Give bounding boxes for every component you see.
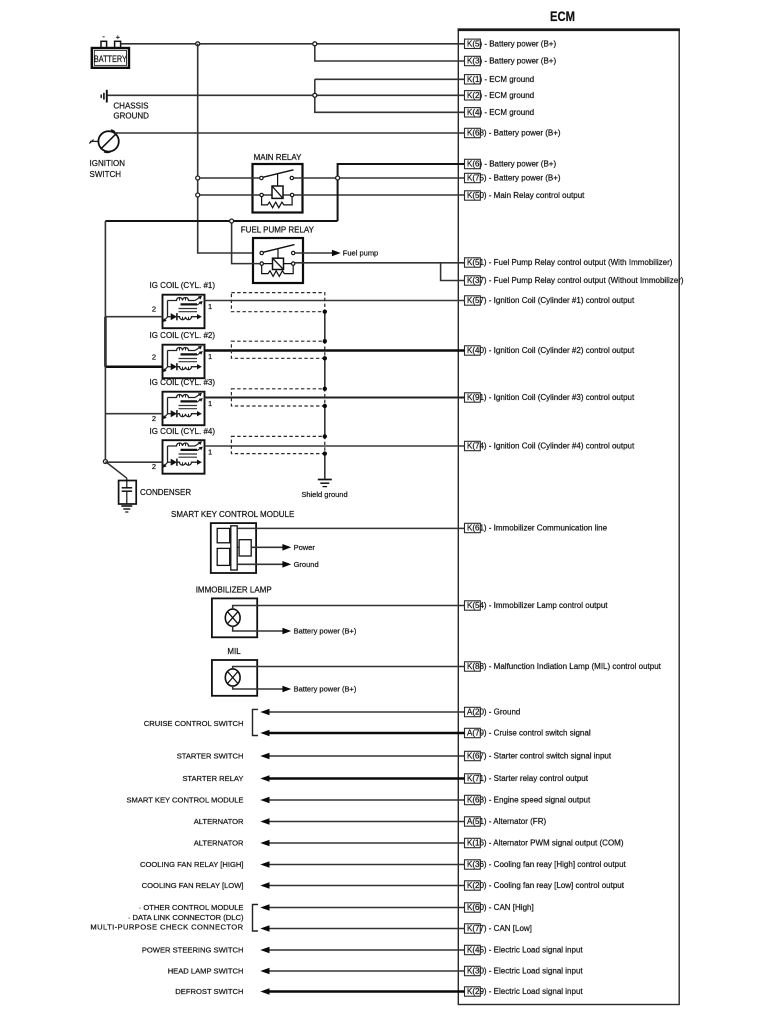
wire coil 1 pin 1 to ECM <box>205 300 465 302</box>
svg-text:1: 1 <box>208 448 212 457</box>
svg-text:Fuel pump: Fuel pump <box>343 249 378 258</box>
pin K(50) <box>465 191 586 200</box>
svg-text:STARTER RELAY: STARTER RELAY <box>182 774 243 783</box>
pin K(1) <box>465 75 535 84</box>
svg-text:A(79) - Cruise control switch: A(79) - Cruise control switch signal <box>467 729 591 738</box>
pin A(79) <box>465 728 591 737</box>
svg-text:2: 2 <box>152 414 156 423</box>
shield box cylinder 2 <box>231 341 324 358</box>
pin K(2) <box>465 91 535 100</box>
svg-text:K(88) - Malfunction Indiation: K(88) - Malfunction Indiation Lamp (MIL)… <box>467 662 662 671</box>
pin K(36) <box>465 860 627 869</box>
svg-text:SMART KEY CONTROL MODULE: SMART KEY CONTROL MODULE <box>126 796 243 805</box>
bracket cruise control switch <box>253 709 259 735</box>
wire fuel pump output arrow <box>295 249 378 258</box>
svg-text:CONDENSER: CONDENSER <box>140 488 191 497</box>
shield box cylinder 1 <box>231 293 324 312</box>
svg-text:K(71) - Starter relay control: K(71) - Starter relay control output <box>467 774 589 783</box>
pin K(88) <box>465 662 662 671</box>
pin K(75) <box>465 173 561 182</box>
wire arrow row y=712.0 <box>260 709 464 716</box>
wire arrow row y=907.5 <box>260 904 464 911</box>
pin K(54) <box>465 601 609 610</box>
svg-text:2: 2 <box>152 462 156 471</box>
pin A(51) <box>465 817 547 826</box>
pin K(5) <box>465 39 557 48</box>
svg-text:IG COIL (CYL. #4): IG COIL (CYL. #4) <box>150 427 216 436</box>
svg-text:K(36) - Cooling fan reay [High: K(36) - Cooling fan reay [High] control … <box>467 860 627 869</box>
wire main relay switch input <box>198 177 260 179</box>
svg-text:K(50) - Main Relay control out: K(50) - Main Relay control output <box>467 191 585 200</box>
junction ground branch <box>313 93 317 97</box>
svg-text:K(54) - Immobilizer Lamp contr: K(54) - Immobilizer Lamp control output <box>467 601 608 610</box>
pin K(51) <box>465 258 673 267</box>
junction relay output branch <box>336 176 340 180</box>
wire arrow row y=733.0 <box>260 730 464 737</box>
wire coil 2 pin 1 to ECM <box>205 349 465 352</box>
svg-text:K(30) - Electric Load signal i: K(30) - Electric Load signal input <box>467 967 583 976</box>
wire K(61) to smart key module <box>237 527 464 529</box>
svg-text:K(6) - Battery power (B+): K(6) - Battery power (B+) <box>467 160 556 169</box>
svg-text:K(63) - Engine speed signal ou: K(63) - Engine speed signal output <box>467 796 591 805</box>
wire arrow row y=928.5 <box>260 925 464 932</box>
wire chassis ground to K(2) <box>108 94 465 96</box>
wire K(54) to immobilizer lamp <box>233 606 465 610</box>
pin K(4) <box>465 108 535 117</box>
pin K(91) <box>465 393 635 402</box>
svg-text:2: 2 <box>152 305 156 314</box>
junction relay input 2 <box>196 193 200 197</box>
pin K(63) <box>465 795 591 804</box>
svg-text:K(77) - CAN [Low]: K(77) - CAN [Low] <box>467 924 532 933</box>
wire K(88) to MIL <box>233 667 465 670</box>
pin K(68) <box>465 128 561 137</box>
svg-text:POWER STEERING SWITCH: POWER STEERING SWITCH <box>142 946 244 955</box>
svg-text:FUEL PUMP RELAY: FUEL PUMP RELAY <box>241 226 315 235</box>
junction K(3) branch <box>313 42 317 46</box>
svg-text:K(1) - ECM ground: K(1) - ECM ground <box>467 75 534 84</box>
svg-text:STARTER SWITCH: STARTER SWITCH <box>177 752 244 761</box>
svg-text:IG COIL (CYL. #2): IG COIL (CYL. #2) <box>150 331 216 340</box>
wire arrow row y=971.0 <box>260 968 464 975</box>
wire switched power rail <box>105 220 337 222</box>
resistor inside fuel pump relay <box>262 265 294 276</box>
pin K(6) <box>465 159 557 168</box>
wire condenser branch <box>105 462 126 479</box>
pin K(67) <box>465 751 612 760</box>
pin A(20) <box>465 707 521 716</box>
svg-text:K(20) - Cooling fan reay [Low]: K(20) - Cooling fan reay [Low] control o… <box>467 881 625 890</box>
wire MIL battery arrow <box>233 685 357 694</box>
svg-text:1: 1 <box>208 302 212 311</box>
wire arrow row y=885.5 <box>260 882 464 889</box>
svg-text:K(16) - Alternator PWM signal: K(16) - Alternator PWM signal output (CO… <box>467 839 624 848</box>
wire coil 4 pin 2 feed <box>105 461 162 463</box>
svg-text:MAIN RELAY: MAIN RELAY <box>254 153 303 162</box>
wire arrow row y=821.5 <box>260 818 464 825</box>
svg-text:SMART KEY CONTROL MODULE: SMART KEY CONTROL MODULE <box>171 510 294 519</box>
junction relay input 1 <box>196 176 200 180</box>
wire ignition coil feed bus <box>104 221 106 462</box>
battery BT1 <box>92 32 129 68</box>
condenser C1 <box>119 478 192 504</box>
junction shield 388.8 <box>323 387 327 391</box>
pin K(71) <box>465 774 589 783</box>
bracket other control module / DLC <box>253 905 259 932</box>
wire branch to K(3) <box>315 44 465 61</box>
svg-text:K(3) - Battery power (B+): K(3) - Battery power (B+) <box>467 57 556 66</box>
wire battery B+ to K(5) <box>121 43 465 45</box>
wire coil 2 pin 2 feed <box>105 365 162 368</box>
junction shield 406.0 <box>323 404 327 408</box>
svg-text:BATTERY: BATTERY <box>94 54 127 64</box>
pin K(61) <box>465 523 608 532</box>
svg-text:K(67) - Starter control switch: K(67) - Starter control switch signal in… <box>467 752 612 761</box>
svg-text:K(45) - Electric Load signal i: K(45) - Electric Load signal input <box>467 946 583 955</box>
wire fuel relay coil to K(51)/K(37) <box>295 262 465 264</box>
svg-text:K(40) - Ignition Coil (Cylinde: K(40) - Ignition Coil (Cylinder #2) cont… <box>467 346 635 355</box>
wire coil 3 pin 2 feed <box>105 413 162 415</box>
svg-text:CRUISE CONTROL SWITCH: CRUISE CONTROL SWITCH <box>144 719 244 728</box>
ECM module box U1 <box>458 29 680 1005</box>
wire ignition coil feed bus thick segment <box>104 317 107 367</box>
shield ground symbol <box>301 480 347 499</box>
pin K(3) <box>465 56 557 65</box>
pin K(29) <box>465 987 584 996</box>
shield box cylinder 4 <box>231 436 324 453</box>
svg-text:K(74) - Ignition Coil (Cylinde: K(74) - Ignition Coil (Cylinder #4) cont… <box>467 442 635 451</box>
junction fuel relay feed <box>230 219 234 223</box>
wire smart key ground arrow <box>237 560 318 569</box>
pin K(40) <box>465 346 635 355</box>
svg-text:COOLING FAN RELAY [HIGH]: COOLING FAN RELAY [HIGH] <box>140 860 244 869</box>
svg-text:SWITCH: SWITCH <box>90 170 122 179</box>
pin K(37) <box>465 276 684 285</box>
svg-text:K(61) - Immobilizer Communicat: K(61) - Immobilizer Communication line <box>467 524 608 533</box>
svg-text:HEAD LAMP SWITCH: HEAD LAMP SWITCH <box>168 967 244 976</box>
svg-text:K(2) - ECM ground: K(2) - ECM ground <box>467 91 534 100</box>
wire coil 3 pin 1 to ECM <box>205 397 465 399</box>
svg-text:MULTI-PURPOSE CHECK CONNECTOR: MULTI-PURPOSE CHECK CONNECTOR <box>90 923 243 932</box>
junction shield 311.7 <box>323 310 327 314</box>
svg-text:K(51) - Fuel Pump Relay contro: K(51) - Fuel Pump Relay control output (… <box>467 258 673 267</box>
svg-text:A(20) - Ground: A(20) - Ground <box>467 708 520 717</box>
wire smart key power arrow <box>251 543 315 552</box>
svg-text:+: + <box>116 33 121 42</box>
wire main relay output to K(75) <box>294 177 465 179</box>
wire immobilizer lamp battery arrow <box>233 626 357 635</box>
svg-text:ALTERNATOR: ALTERNATOR <box>194 817 244 826</box>
wire arrow row y=843.0 <box>260 840 464 847</box>
junction shield 341.2 <box>323 339 327 343</box>
svg-text:CHASSIS: CHASSIS <box>113 101 148 110</box>
svg-text:IGNITION: IGNITION <box>90 159 126 168</box>
svg-text:Battery power (B+): Battery power (B+) <box>294 627 357 636</box>
wire main relay coil input <box>198 194 260 196</box>
wire shield drain <box>324 312 326 479</box>
wire coil 1 pin 2 feed <box>105 316 162 318</box>
svg-text:DEFROST SWITCH: DEFROST SWITCH <box>175 987 243 996</box>
svg-text:K(57) - Ignition Coil (Cylind: K(57) - Ignition Coil (Cylinder #1) cont… <box>467 296 635 305</box>
svg-text:ALTERNATOR: ALTERNATOR <box>194 839 244 848</box>
svg-text:1: 1 <box>208 352 212 361</box>
svg-text:K(29) - Electric Load signal i: K(29) - Electric Load signal input <box>467 987 583 996</box>
svg-text:K(4) - ECM ground: K(4) - ECM ground <box>467 108 534 117</box>
wire arrow row y=991.5 <box>260 988 464 995</box>
svg-text:1: 1 <box>208 399 212 408</box>
svg-text:IMMOBILIZER LAMP: IMMOBILIZER LAMP <box>196 586 272 595</box>
wire ignition switch to K(68) <box>115 132 465 134</box>
svg-text:Battery power (B+): Battery power (B+) <box>294 685 357 694</box>
wire arrow row y=756.0 <box>260 753 464 760</box>
svg-text:· OTHER CONTROL MODULE: · OTHER CONTROL MODULE <box>139 903 244 912</box>
junction condenser tap <box>103 460 107 464</box>
wire main relay coil to K(50) <box>294 194 465 196</box>
pin K(45) <box>465 945 584 954</box>
wire arrow row y=800.0 <box>260 797 464 804</box>
pin K(57) <box>465 296 635 305</box>
wire arrow row y=778.5 <box>260 775 464 782</box>
svg-text:A(51) - Alternator (FR): A(51) - Alternator (FR) <box>467 817 546 826</box>
wire bus battery down <box>198 44 260 253</box>
wire coil 4 pin 1 to ECM <box>205 445 465 447</box>
svg-text:2: 2 <box>152 353 156 362</box>
svg-text:K(75) - Battery power (B+): K(75) - Battery power (B+) <box>467 174 561 183</box>
wire fuel relay coil feed <box>232 221 260 264</box>
wire arrow row y=864.5 <box>260 861 464 868</box>
junction shield 358.3 <box>323 356 327 360</box>
junction battery bus <box>196 42 200 46</box>
pin K(20) <box>465 881 625 890</box>
junction shield 436.4 <box>323 434 327 438</box>
svg-text:K(91) - Ignition Coil (Cylinde: K(91) - Ignition Coil (Cylinder #3) cont… <box>467 393 635 402</box>
svg-text:K(68) - Battery power (B+): K(68) - Battery power (B+) <box>467 129 561 138</box>
pin K(77) <box>465 924 532 933</box>
wire branch to K(1) and K(4) <box>315 79 465 112</box>
svg-text:· DATA LINK CONNECTOR (DLC): · DATA LINK CONNECTOR (DLC) <box>128 913 244 922</box>
svg-text:ECM: ECM <box>550 8 575 24</box>
svg-text:COOLING FAN RELAY [LOW]: COOLING FAN RELAY [LOW] <box>142 881 244 890</box>
svg-text:IG COIL (CYL. #1): IG COIL (CYL. #1) <box>150 281 216 290</box>
wire arrow row y=950.0 <box>260 947 464 954</box>
ignition switch SW1 <box>89 130 125 179</box>
svg-text:GROUND: GROUND <box>113 111 149 120</box>
chassis ground symbol <box>101 90 149 121</box>
pin K(30) <box>465 966 584 975</box>
resistor inside main relay <box>262 197 293 208</box>
pin K(60) <box>465 903 534 912</box>
svg-text:Shield ground: Shield ground <box>301 490 347 499</box>
ground symbol condenser <box>121 506 132 512</box>
pin K(16) <box>465 838 624 847</box>
pin K(74) <box>465 441 635 450</box>
junction shield 453.6 <box>323 451 327 455</box>
shield box cylinder 3 <box>231 389 324 406</box>
svg-text:MIL: MIL <box>227 647 241 656</box>
svg-text:K(5) - Battery power (B+): K(5) - Battery power (B+) <box>467 39 556 48</box>
wire relay output branch up to K(6) <box>338 164 465 221</box>
svg-text:K(37) - Fuel Pump Relay contro: K(37) - Fuel Pump Relay control output (… <box>467 276 684 285</box>
svg-text:K(60) - CAN [High]: K(60) - CAN [High] <box>467 903 534 912</box>
svg-text:Power: Power <box>294 543 316 552</box>
svg-text:Ground: Ground <box>294 560 319 569</box>
svg-text:IG COIL (CYL. #3): IG COIL (CYL. #3) <box>150 378 216 387</box>
